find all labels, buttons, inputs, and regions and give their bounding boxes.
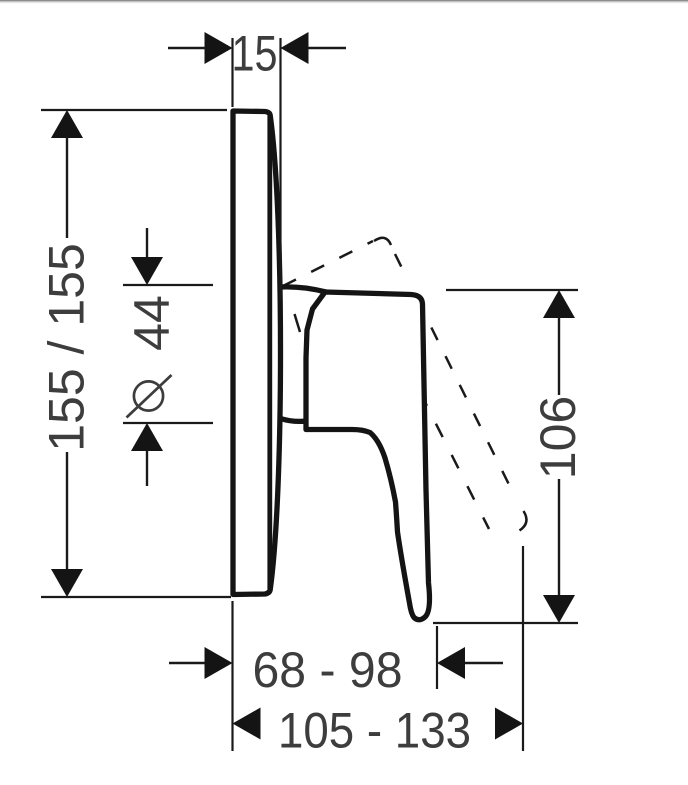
dim 68-98: left arrow <box>205 647 233 679</box>
dim diameter 44: diameter symbol <box>127 375 172 418</box>
dim 15: left tail <box>168 47 205 49</box>
dim 106: top extension line <box>446 289 578 291</box>
dim 68-98: right arrow <box>437 647 465 679</box>
dim diameter 44: down arrow <box>131 257 163 285</box>
escutcheon wall plate <box>233 111 281 595</box>
dim 68-98: left tail <box>169 662 205 664</box>
dashed handle (rotated position) top edge <box>283 241 373 286</box>
dashed handle back edge line <box>395 254 527 521</box>
bottom dims: handle tip extension line <box>436 626 438 689</box>
dim 155/155: upper line segment <box>66 137 68 238</box>
dim 15: right tail <box>308 47 346 49</box>
dim 15: right arrow <box>281 32 309 64</box>
dim 106: lower line segment <box>558 479 560 596</box>
bottom dims: wall extension line <box>231 601 233 751</box>
dim 105-133: left arrow <box>233 708 261 740</box>
dim 106: upper line segment <box>558 317 560 395</box>
dim 15: right extension line <box>279 38 281 300</box>
svg-text:105 - 133: 105 - 133 <box>278 703 471 759</box>
dim diameter 44: upper line segment <box>146 228 148 258</box>
handle lever body <box>306 292 430 620</box>
dim 155/155: bottom arrow <box>51 569 83 597</box>
dim 68-98: right tail <box>465 662 503 664</box>
dim 155/155: bottom extension line <box>41 596 231 598</box>
dim 15: left extension line <box>231 38 233 107</box>
dashed handle inner edge <box>426 404 489 529</box>
svg-text:15: 15 <box>232 26 278 82</box>
svg-text:44: 44 <box>124 295 180 351</box>
dim 105-133: right arrow <box>495 708 523 740</box>
dim 106: bottom extension line <box>433 622 578 624</box>
dim diameter 44: lower line segment <box>146 450 148 486</box>
dim 15: left arrow <box>205 32 233 64</box>
dashed handle corner and back edge <box>374 238 391 245</box>
top border bar <box>0 0 688 1</box>
svg-text:155 / 155: 155 / 155 <box>39 243 95 452</box>
dim 155/155: top arrow <box>51 110 83 138</box>
dim 106: top arrow <box>543 290 575 318</box>
dim diameter 44: up arrow <box>131 423 163 451</box>
plate face edge <box>267 116 272 589</box>
dim diameter 44: upper tick line <box>123 284 213 286</box>
valve hub top arc <box>281 287 327 292</box>
bottom dims: dashed tip extension line <box>522 546 524 751</box>
valve hub bottom arc <box>281 419 308 422</box>
dim 155/155: lower line segment <box>66 452 68 570</box>
dim diameter 44: lower tick line <box>123 422 213 424</box>
dim 106: bottom arrow <box>543 595 575 623</box>
svg-text:68 - 98: 68 - 98 <box>253 642 403 698</box>
dashed handle lower edge near plate <box>295 314 301 332</box>
dashed handle tip arc <box>520 511 527 531</box>
dim 155/155: top extension line <box>41 109 227 111</box>
svg-text:106: 106 <box>530 396 586 479</box>
